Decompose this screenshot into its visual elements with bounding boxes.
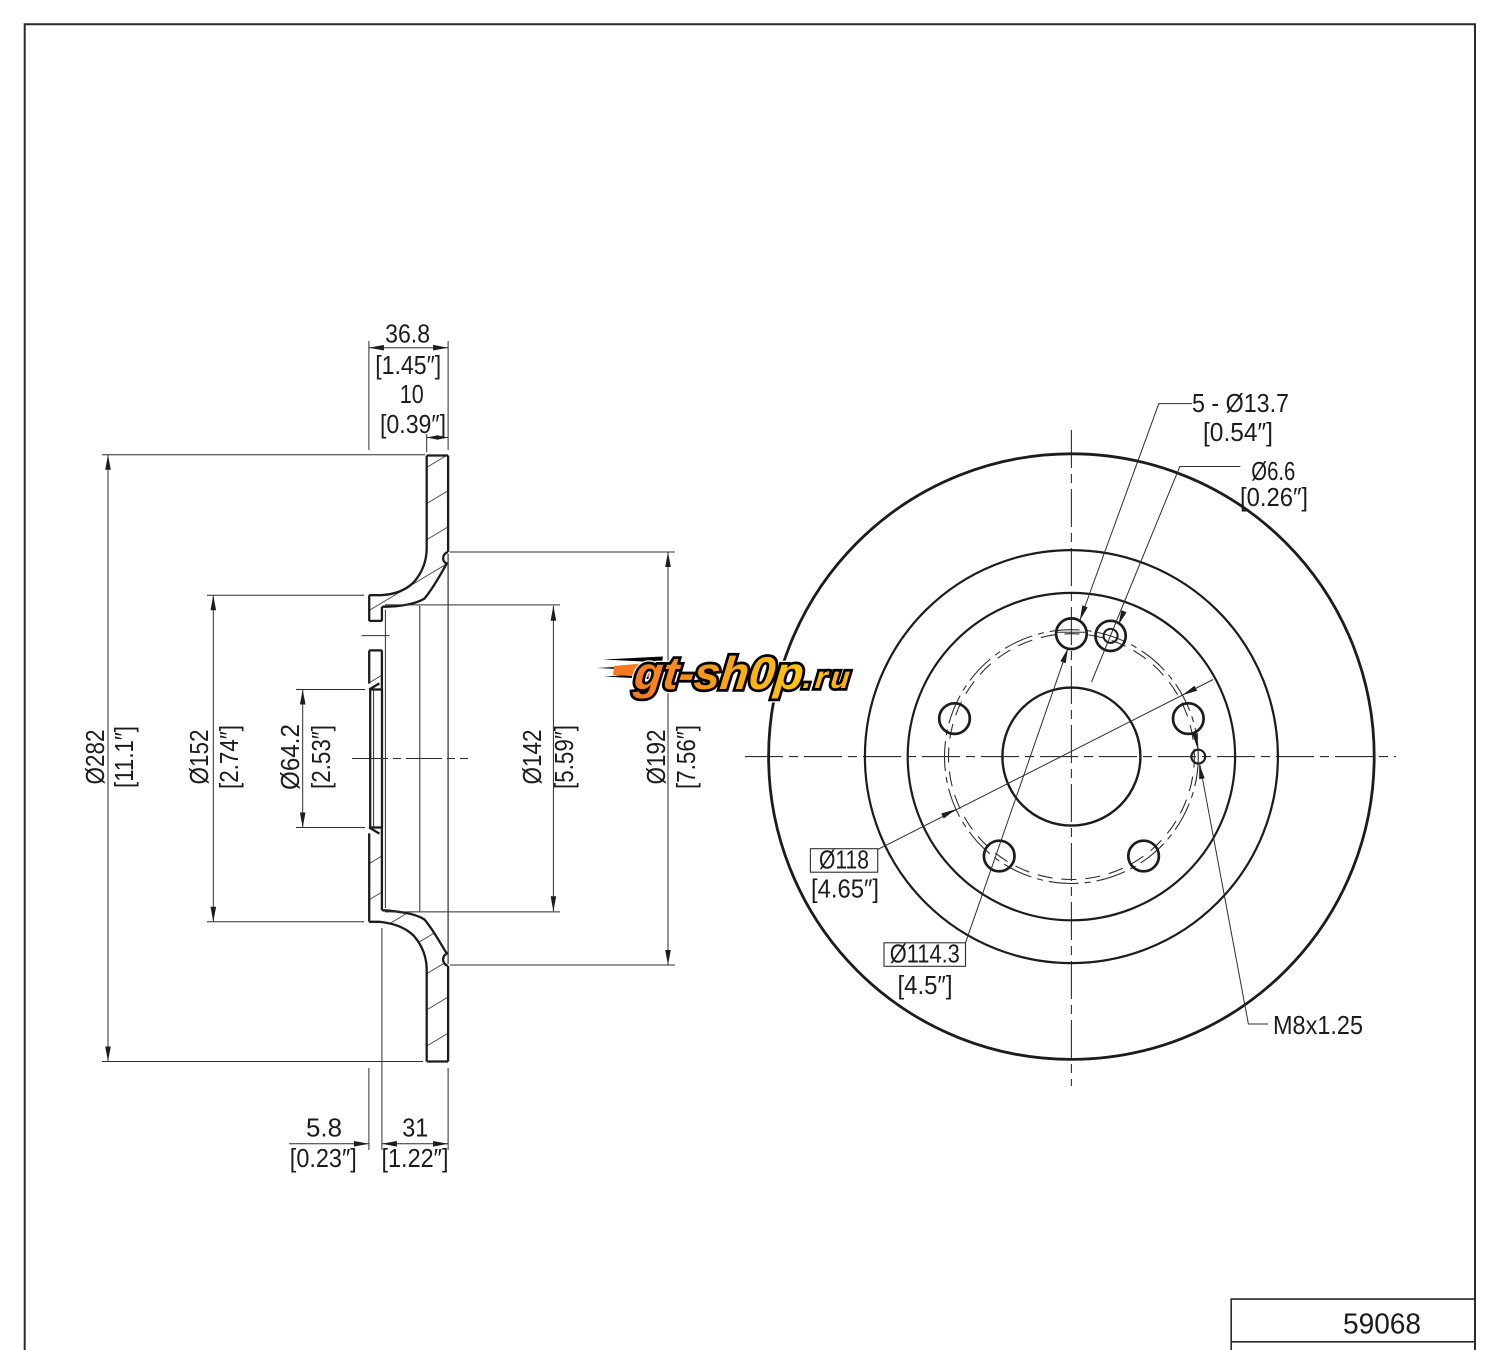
dimension Ø152 [2.74"] flange diameter xyxy=(207,595,364,922)
gt-shop.ru watermark logo xyxy=(597,657,668,680)
set screw hole Ø6.6 with chamfer circle xyxy=(1096,621,1126,651)
svg-text:M8x1.25: M8x1.25 xyxy=(1273,1010,1363,1040)
leader M8x1.25 service hole xyxy=(1200,765,1268,1024)
svg-text:5.8: 5.8 xyxy=(306,1112,342,1142)
flange mid hatched segment between stud hole and bore xyxy=(369,650,382,689)
svg-text:Ø282: Ø282 xyxy=(80,730,110,785)
svg-text:[1.22″]: [1.22″] xyxy=(382,1143,449,1173)
svg-text:[11.1″]: [11.1″] xyxy=(109,726,139,788)
brake disc cross-section hatched metal: friction ring top + hat neck + flange upper xyxy=(369,456,448,621)
dimension 31 [1.22"] hat depth xyxy=(382,1143,448,1145)
svg-text:Ø64.2: Ø64.2 xyxy=(275,724,305,790)
leader Ø114.3 bolt circle xyxy=(966,648,1069,943)
svg-text:31: 31 xyxy=(402,1112,428,1142)
leader Ø118 bolt hole circle xyxy=(878,680,1213,850)
circle Ø192 hat step xyxy=(865,550,1278,963)
bottom metal: flange lower + hat neck + friction ring bottom xyxy=(369,828,448,1062)
svg-text:[0.54″]: [0.54″] xyxy=(1203,417,1273,447)
dimension 36.8 [1.45"] overall width xyxy=(369,341,448,450)
center bore walls and chamfers xyxy=(369,683,382,833)
svg-text:[2.53″]: [2.53″] xyxy=(306,725,336,789)
friction ring outline (section) xyxy=(427,456,448,1062)
short centre tick through top stud hole xyxy=(1056,631,1087,633)
svg-text:[2.74″]: [2.74″] xyxy=(214,725,244,789)
hub flange faces xyxy=(369,595,382,922)
hat neck outline bottom xyxy=(369,910,448,970)
leader 5 - Ø13.7 stud holes xyxy=(1080,404,1192,621)
leader Ø6.6 set screw xyxy=(1092,467,1241,683)
hat neck outline top xyxy=(369,548,448,607)
svg-text:Ø192: Ø192 xyxy=(641,730,671,785)
svg-text:[7.56″]: [7.56″] xyxy=(671,725,701,789)
wheel stud hole in flange (section) xyxy=(369,621,382,651)
svg-text:[0.39″]: [0.39″] xyxy=(380,409,446,439)
centre bore Ø64.2 xyxy=(1002,688,1140,826)
svg-text:Ø118: Ø118 xyxy=(819,845,869,875)
dimension Ø64.2 [2.53"] centre bore xyxy=(296,690,365,828)
svg-text:[4.65″]: [4.65″] xyxy=(811,874,879,904)
svg-text:36.8: 36.8 xyxy=(385,319,430,349)
dimension Ø282 [11.1"] outer diameter xyxy=(102,455,425,1062)
svg-text:59068: 59068 xyxy=(1343,1309,1421,1341)
dimension Ø192 [7.56"] hat outer diameter xyxy=(450,552,675,965)
svg-text:[5.59″]: [5.59″] xyxy=(549,725,579,789)
inner friction face projection lines xyxy=(419,606,421,911)
centerlines of front view xyxy=(745,430,1396,1086)
dimension 5.8 [0.23"] flange thickness xyxy=(369,928,448,1150)
title block table xyxy=(1231,1299,1475,1350)
svg-text:[0.26″]: [0.26″] xyxy=(1240,482,1308,512)
svg-text:10: 10 xyxy=(400,379,424,409)
section axis centerline xyxy=(352,758,468,760)
bolt circle Ø114.3 (dashed) xyxy=(949,634,1195,880)
svg-text:[1.45″]: [1.45″] xyxy=(375,350,441,380)
M8 service hole xyxy=(1191,750,1205,764)
svg-text:[0.23″]: [0.23″] xyxy=(290,1143,357,1173)
svg-text:5 - Ø13.7: 5 - Ø13.7 xyxy=(1192,388,1289,418)
circle Ø152 flange xyxy=(908,593,1235,920)
outer circle Ø282 xyxy=(769,454,1375,1060)
svg-text:[4.5″]: [4.5″] xyxy=(898,970,953,1000)
svg-text:Ø142: Ø142 xyxy=(517,730,547,785)
bolt circle Ø118 (dash-dot) xyxy=(945,630,1199,884)
svg-text:Ø152: Ø152 xyxy=(184,730,214,785)
five wheel stud holes Ø13.7 xyxy=(1056,618,1087,649)
dimension Ø142 [5.59"] inner friction diameter xyxy=(385,605,560,912)
svg-text:Ø114.3: Ø114.3 xyxy=(890,939,960,969)
